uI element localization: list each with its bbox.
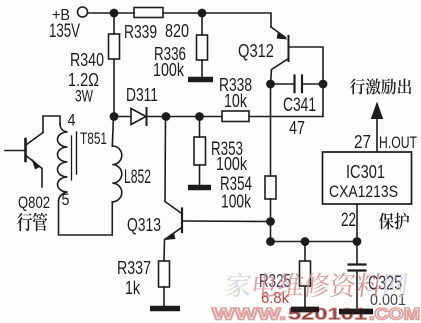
capacitor C325 (0.001) (356, 242, 358, 264)
wire: pin 4 to Q802 collector (43, 116, 60, 133)
svg-text:100k: 100k (216, 154, 248, 174)
svg-text:Q313: Q313 (127, 215, 161, 235)
wire: R353 bottom to ground (199, 165, 201, 185)
junction pin22 / C325 (353, 237, 362, 246)
wire: node C down to L852 top (112, 117, 113, 147)
wire: Q312 base to right then down (290, 47, 324, 117)
H.OUT drive arrow head (371, 102, 383, 120)
transistor Q312 (288, 36, 290, 61)
resistor R339 (820) body (134, 8, 163, 18)
wire: Q313 collector up to node D (165, 117, 181, 214)
label 保护 (protect) (379, 213, 409, 230)
Q312 collector (271, 60, 288, 85)
wire: node C to D311 anode (114, 116, 131, 118)
svg-text:D311: D311 (126, 85, 158, 105)
svg-text:27: 27 (354, 132, 371, 152)
resistor R340 (1.2ohm 3W) body (109, 34, 120, 59)
wire: R338 right to Q312 base node (249, 116, 323, 118)
svg-text:10k: 10k (224, 91, 248, 111)
pin 27 H.OUT line (376, 117, 378, 152)
Q312 emitter arrow (277, 32, 288, 40)
node F junction (R354 / Q313 base) (266, 217, 275, 226)
svg-text:6.8k: 6.8k (261, 290, 290, 307)
svg-text:820: 820 (165, 21, 189, 41)
svg-text:H.OUT: H.OUT (379, 133, 417, 152)
wire: node B down to R336 (201, 13, 203, 35)
svg-text:100k: 100k (221, 192, 252, 212)
svg-text:C341: C341 (283, 95, 316, 116)
label 行激励出 (H-drive output) (350, 78, 411, 94)
wire: R340 bottom to node C (113, 59, 115, 117)
node E junction (R353 tap) (195, 112, 204, 121)
svg-text:IC301: IC301 (346, 162, 385, 182)
svg-text:1k: 1k (125, 278, 141, 298)
ground (R325) (291, 307, 319, 313)
IC301 CXA1213S box (323, 152, 412, 204)
wire: R354 bottom to node F to node G (270, 199, 272, 242)
wire: D311 cathode to node D (147, 116, 166, 118)
resistor R325 (6.8k) body (300, 261, 311, 286)
svg-text:3W: 3W (75, 87, 93, 106)
svg-text:R340: R340 (70, 50, 104, 70)
resistor R353 (100k) body (194, 137, 206, 165)
node B junction (R339 / R336) (198, 9, 207, 18)
ground (C325) (339, 309, 373, 315)
inductor L852 winding (112, 146, 122, 202)
Q313 emitter (164, 228, 181, 261)
wire: R325 node down (304, 242, 306, 262)
node C junction (R340 / D311 / L852) (110, 112, 119, 121)
svg-text:R339: R339 (124, 22, 157, 42)
svg-text:135V: 135V (49, 21, 80, 42)
wire: node B to Q312 emitter (202, 13, 271, 27)
svg-text:CXA1213S: CXA1213S (329, 182, 398, 201)
junction Q312 collector / C341 left (266, 80, 275, 89)
svg-text:5: 5 (62, 190, 70, 209)
diode D311 (131, 109, 146, 125)
node G junction (corner) (266, 237, 275, 246)
svg-text:WWW.: WWW. (212, 306, 286, 323)
resistor R354 (100k) body (265, 176, 276, 199)
wire: node G to R325 node to pin22 node (271, 241, 358, 243)
wire: Q313 base to node F (183, 220, 271, 223)
label 行管 (H output transistor) (17, 213, 48, 232)
svg-text:Q802: Q802 (18, 193, 50, 212)
svg-text:Q312: Q312 (238, 41, 274, 61)
ground (R336) (188, 77, 213, 83)
transistor Q313 (181, 209, 183, 233)
transistor Q802 (row output) (24, 139, 27, 161)
svg-text:L852: L852 (124, 167, 151, 188)
ground (R337) (150, 306, 180, 312)
pin 22 line (356, 204, 358, 242)
transformer T851 core (71, 136, 73, 180)
node A junction (+B / R340) (110, 9, 119, 18)
wire: Q312 collector node down through R354 (270, 84, 272, 176)
svg-text:100k: 100k (153, 60, 185, 80)
wire: R337 bottom to ground (163, 287, 165, 306)
ground (R353) (188, 185, 211, 191)
resistor R337 (1k) body (159, 261, 170, 287)
junction Q312 base / C341 right (319, 80, 328, 89)
junction R325 tap (301, 237, 310, 246)
ground bar overlays above watermark (R325, C325) (291, 310, 373, 312)
resistor R338 (10k) body (222, 111, 249, 122)
transformer T851 primary winding (pins 4-5) (58, 124, 68, 202)
wire: R336 bottom to ground (201, 60, 203, 77)
svg-text:47: 47 (289, 118, 305, 138)
resistor R336 (100k) body (197, 35, 208, 60)
watermark 家电维修资料网 (225, 273, 252, 297)
svg-text:.COM: .COM (369, 306, 420, 323)
wire: R325 bottom to ground (304, 286, 306, 307)
wire: L852 bottom to common return (59, 201, 113, 235)
Q312 emitter from top rail (271, 27, 286, 38)
svg-text:T851: T851 (80, 129, 107, 148)
node D junction (D311 / Q313 collector) (162, 112, 171, 121)
wire: node E down to R353 (199, 117, 201, 138)
+B input terminal (78, 7, 88, 17)
wire: node A down to R340 (113, 13, 115, 34)
wire: R339 right to node B (top of R336) (163, 12, 202, 14)
svg-text:22: 22 (341, 210, 356, 231)
Q802 emitter arrow (32, 159, 41, 170)
watermark WWW.520101.COM (212, 306, 420, 323)
capacitor C341 (47) (271, 83, 295, 85)
wire: node D to node E (166, 116, 200, 118)
svg-text:R337: R337 (117, 258, 151, 278)
wire: +B terminal to R339 (89, 12, 135, 14)
svg-text:4: 4 (68, 111, 76, 130)
wire: node E to R338 (200, 116, 223, 118)
Q313 emitter arrow (165, 233, 176, 240)
